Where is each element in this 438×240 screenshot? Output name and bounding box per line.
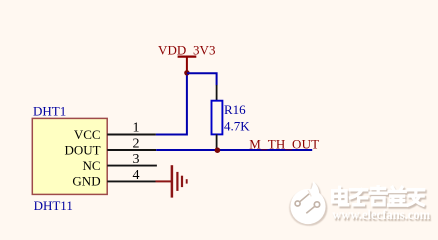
svg-text:3: 3 xyxy=(133,152,140,167)
svg-text:R16: R16 xyxy=(224,102,246,117)
component body DHT11 box xyxy=(32,118,107,194)
wire DOUT net M_TH_OUT (blue) xyxy=(156,149,312,151)
power symbol stem xyxy=(186,57,188,73)
resistor R16 bottom pin xyxy=(216,134,218,150)
pin 1 wire xyxy=(107,134,156,136)
wire VDD node to resistor (blue) xyxy=(187,73,217,85)
svg-text:www.elecfans.com: www.elecfans.com xyxy=(332,207,431,222)
svg-text:DOUT: DOUT xyxy=(64,142,100,157)
junction dot at DOUT node xyxy=(215,147,221,153)
power symbol VDD bar xyxy=(178,55,197,57)
svg-text:GND: GND xyxy=(72,174,100,189)
resistor R16 body xyxy=(212,101,223,135)
svg-text:DHT11: DHT11 xyxy=(34,198,73,213)
junction dot at VDD node xyxy=(184,70,189,75)
pin 4 wire xyxy=(107,180,155,182)
pin 2 wire xyxy=(107,149,156,151)
wire GND pin to ground (dark red) xyxy=(156,180,172,182)
svg-text:VDD_3V3: VDD_3V3 xyxy=(158,42,216,57)
svg-text:VCC: VCC xyxy=(74,127,101,142)
ground bar 1 xyxy=(171,165,174,197)
svg-text:2: 2 xyxy=(133,137,140,152)
wire VCC to VDD (blue) xyxy=(156,73,187,134)
ground bar 2 xyxy=(176,172,178,191)
resistor R16 top pin xyxy=(216,85,218,101)
svg-text:4.7K: 4.7K xyxy=(224,119,250,134)
svg-text:M_TH_OUT: M_TH_OUT xyxy=(249,136,319,151)
svg-text:NC: NC xyxy=(83,158,101,173)
svg-text:DHT1: DHT1 xyxy=(33,103,66,118)
ground bar 4 xyxy=(186,179,188,183)
pin 3 wire xyxy=(107,165,157,167)
svg-text:4: 4 xyxy=(133,168,140,183)
watermark chinese text (abstract strokes) xyxy=(333,187,426,207)
ground bar 3 xyxy=(181,176,183,187)
svg-text:1: 1 xyxy=(133,121,140,136)
